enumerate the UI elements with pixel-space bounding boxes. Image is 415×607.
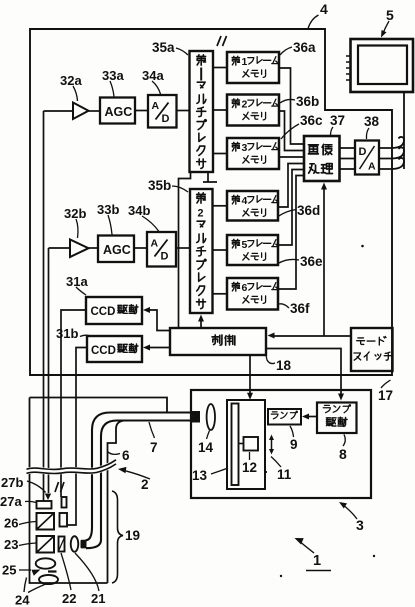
multiplexer 2 box 35b [190,189,213,313]
frame memory box 36f [227,278,278,310]
svg-text:A: A [152,100,160,112]
svg-text:CCD: CCD [91,306,116,318]
svg-text:35a: 35a [152,40,175,55]
svg-text:2: 2 [198,208,204,220]
svg-text:36a: 36a [293,40,316,55]
ditto mark [217,36,227,46]
frame memory box 36e [227,235,278,265]
svg-text:CCD: CCD [91,345,116,357]
svg-text:3: 3 [356,517,364,533]
svg-text:D: D [359,146,367,158]
up-down arrow 11 [271,437,273,452]
wire A/D to multiplexer 2 [176,247,190,249]
svg-text:35b: 35b [148,178,171,193]
svg-text:13: 13 [192,468,208,483]
wire control to mux2 [200,319,202,328]
monitor 5 outer [351,39,414,92]
svg-text:5: 5 [242,239,248,251]
frame memory box 36b [227,95,279,126]
lens element 21 [71,536,79,552]
light guide cable 7 lower line [101,421,190,541]
svg-text:8: 8 [339,446,347,462]
wire CCD1 drive down to scope [61,310,86,497]
wire amp2 signal down [48,248,50,493]
svg-text:25: 25 [2,563,16,578]
control box (seigyo) [170,328,266,355]
AGC box 33a [100,98,135,124]
svg-text:24: 24 [15,593,30,607]
arrow onto 27a [45,494,51,501]
wire control to filter unit [249,355,251,397]
svg-text:12: 12 [242,460,257,475]
svg-text:18: 18 [276,358,292,373]
svg-text:22: 22 [62,591,76,606]
svg-text:4: 4 [320,1,328,17]
wire FM4 out [278,164,304,208]
monitor 5 screen [358,46,407,85]
image processor box 37 [304,136,340,181]
amplifier 32b [70,240,89,258]
wire lamp drive to lamp [306,416,318,418]
control wire to 37 [323,186,325,336]
svg-text:A: A [368,161,376,173]
rotary filter unit outer 13 [227,400,265,489]
wire mux2 to FM5 [213,249,228,251]
light guide end [81,540,87,549]
wire mode switch to control [271,335,351,337]
AGC box 33b [98,236,134,263]
svg-text:1: 1 [313,553,321,569]
CCD drive box 31b [87,336,142,362]
svg-text:36b: 36b [296,94,319,109]
svg-text:14: 14 [198,440,214,455]
svg-text:19: 19 [125,528,140,543]
wire mux1 to FM3 [213,153,227,155]
scope cord outline step [30,398,168,413]
ditto mark in scope [55,482,64,492]
frame memory box 36a [227,52,279,83]
wires 37 to D/A [340,148,356,169]
svg-text:33a: 33a [102,68,124,83]
wire monitor to D/A lines [403,92,405,169]
light guide cable 7 upper line [92,413,190,528]
light guide connector [190,411,200,423]
multiplexer 1 box 35a [190,51,214,172]
svg-text:D: D [162,113,170,125]
wire FM6 out [278,176,304,290]
wire mux1 to FM2 [213,109,227,111]
CCD chip element [60,513,68,527]
svg-text:3: 3 [242,142,248,154]
prism 26 [37,513,55,530]
stray dots [361,245,364,248]
svg-text:2: 2 [141,477,149,492]
svg-text:34b: 34b [128,203,150,218]
small element B [62,497,67,508]
frame memory box 36d [227,191,278,221]
svg-text:37: 37 [330,113,345,128]
svg-text:36f: 36f [290,301,310,316]
light guide curve left [86,527,93,540]
wire FM1 out [279,68,304,144]
lamp box 9 [268,409,301,425]
wire control to CCD2 [147,347,171,349]
svg-text:32a: 32a [60,73,82,88]
light guide curve right [86,540,101,548]
cover glass 27a [37,501,52,509]
wire A/D to multiplexer 1 [177,110,190,112]
svg-text:34a: 34a [142,68,164,83]
svg-text:36e: 36e [300,254,323,269]
wire control to CCD1 [147,310,171,331]
svg-text:27a: 27a [0,494,22,509]
svg-text:7: 7 [150,440,158,455]
wire amp to AGC 33b [89,247,99,249]
filter element 22 [59,537,65,552]
lamp drive box 8 [317,403,357,434]
light source box 3 [191,390,371,498]
condenser lens 14 [207,404,215,430]
svg-text:A: A [151,238,159,250]
amplifier 32a [73,103,89,120]
svg-text:21: 21 [91,591,105,606]
wire mux1 to FM1 [213,67,227,69]
mode switch box [351,328,393,371]
wire AGC to A/D 34a [135,110,148,112]
wire amp1 signal down [43,111,45,501]
svg-text:33b: 33b [97,202,119,217]
CCD drive box 31a [86,297,142,324]
svg-text:32b: 32b [64,206,86,221]
svg-text:23: 23 [4,537,18,552]
svg-text:D: D [161,251,169,263]
svg-text:27b: 27b [1,475,23,490]
prism 23 [37,536,55,553]
processor unit box 4 (stepped outline) [30,29,392,375]
wire AGC to A/D 34b [134,247,147,249]
scope right edge with step 6 [108,421,127,584]
filter disk 13 [232,404,239,486]
illumination window 25 [36,558,56,568]
svg-text:4: 4 [242,195,248,207]
svg-text:9: 9 [290,437,298,452]
wire FM5 out [278,170,304,246]
D/A box 38 [355,141,379,175]
small tee mark below mux1 [203,172,217,182]
svg-text:5: 5 [386,7,394,23]
wire control to lamp drive [266,349,341,398]
motor box 12 [244,437,259,451]
A/D box 34a [148,95,177,128]
A/D box 34b [147,232,176,267]
svg-text:AGC: AGC [103,243,131,257]
monitor side ticks [346,56,350,80]
svg-text:38: 38 [364,114,380,129]
brace 19 [112,491,123,583]
wire CCD1 signal to amp 32a [44,110,74,112]
svg-text:17: 17 [378,388,393,403]
wire control to mux1 [179,172,191,328]
svg-text:31a: 31a [66,274,88,289]
frame memory box 36c [227,138,279,169]
svg-text:6: 6 [242,282,248,294]
objective window [39,575,58,584]
svg-text:36d: 36d [297,203,320,218]
wire FM3 out [279,156,304,158]
svg-text:26: 26 [4,516,18,531]
wires D/A to monitor [379,137,404,148]
wire CCD2 signal to amp 32b [49,247,71,249]
svg-text:36c: 36c [300,113,323,128]
svg-text:11: 11 [277,467,292,482]
wire FM2 out [279,111,304,151]
wire CCD2 drive down to scope [68,348,88,526]
small dash [48,570,57,572]
svg-text:6: 6 [122,448,130,463]
break wave lines [27,462,117,472]
wire amp to AGC 33a [89,110,101,112]
svg-text:1: 1 [242,56,248,68]
wire mux2 to FM4 [213,205,228,207]
scope left edge and bottom [30,398,108,584]
svg-text:2: 2 [242,99,248,111]
svg-text:AGC: AGC [105,105,133,119]
svg-text:31b: 31b [56,326,78,341]
wire mux2 to FM6 [213,293,228,295]
